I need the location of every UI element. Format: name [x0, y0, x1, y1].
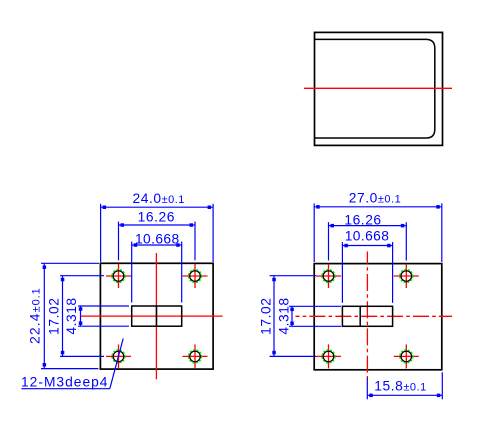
- hole bottom-right (left flange): [183, 344, 208, 368]
- svg-text:12-M3deep4: 12-M3deep4: [21, 375, 108, 390]
- hole top-left (left flange): [106, 264, 131, 288]
- right flange aperture step line: [359, 306, 361, 326]
- svg-text:22.4±0.1: 22.4±0.1: [28, 287, 43, 344]
- dimension 16.26 (right flange top): [329, 212, 407, 260]
- hole top-right (right flange): [394, 264, 419, 288]
- svg-text:27.0±0.1: 27.0±0.1: [349, 190, 401, 205]
- dimension 10.668 (right flange top): [342, 229, 392, 303]
- hole top-right (left flange): [183, 264, 208, 288]
- dimension 4.318 (left flange left side): [64, 297, 129, 334]
- right flange waveguide aperture: [342, 306, 392, 326]
- svg-text:24.0±0.1: 24.0±0.1: [133, 191, 185, 206]
- left flange outline: [100, 263, 213, 369]
- dimension 27.0±0.1 (right flange top): [314, 190, 442, 262]
- left flange aperture center divider: [156, 306, 158, 326]
- dimension 16.26 (left flange top): [119, 209, 196, 260]
- dimension 15.8±0.1 (right flange bottom): [367, 372, 442, 399]
- svg-text:10.668: 10.668: [345, 229, 390, 244]
- dimension 10.668 (left flange top): [132, 231, 182, 302]
- hole bottom-left (right flange): [316, 344, 341, 368]
- hole top-left (right flange): [316, 264, 341, 288]
- svg-text:10.668: 10.668: [135, 231, 180, 246]
- side view inner cavity outline (rounded right corners): [315, 39, 435, 138]
- svg-text:17.02: 17.02: [258, 298, 273, 335]
- svg-text:16.26: 16.26: [344, 212, 381, 227]
- svg-text:4.318: 4.318: [277, 297, 292, 334]
- thread note 12-M3deep4 with leader: [21, 339, 123, 390]
- side view horizontal centerline: [304, 87, 452, 89]
- left flange vertical centerline: [155, 253, 157, 379]
- hole bottom-left (left flange): [106, 344, 131, 368]
- right flange vertical centerline (dash-dot): [366, 252, 368, 381]
- svg-text:17.02: 17.02: [46, 298, 61, 335]
- left flange horizontal centerline: [81, 315, 223, 317]
- right flange horizontal centerline (dash-dot): [296, 315, 453, 317]
- dimension 17.02 (left flange left side): [46, 276, 104, 357]
- svg-text:4.318: 4.318: [64, 297, 79, 334]
- dimension 4.318 (right flange left side): [277, 297, 342, 334]
- svg-text:16.26: 16.26: [138, 209, 175, 224]
- left flange waveguide aperture: [132, 306, 182, 326]
- svg-text:15.8±0.1: 15.8±0.1: [374, 379, 426, 394]
- right flange outline: [314, 264, 442, 370]
- dimension 24.0±0.1 (left flange top): [101, 191, 214, 262]
- dimension 22.4±0.1 (left flange left side): [28, 263, 100, 368]
- dimension 17.02 (right flange left side): [258, 276, 316, 357]
- hole bottom-right (right flange): [394, 344, 419, 368]
- side view outer body outline: [315, 32, 443, 145]
